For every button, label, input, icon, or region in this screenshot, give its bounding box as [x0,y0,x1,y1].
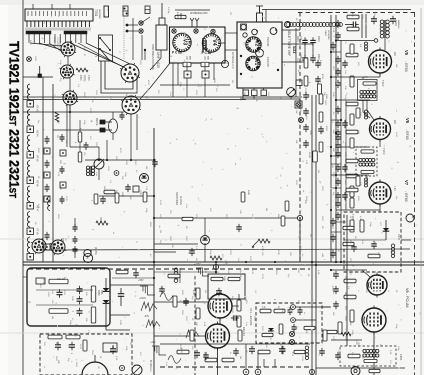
resistor R z br [327,330,351,336]
wire vhf top tie [259,10,261,14]
wire x296 drop [295,28,297,97]
wire bus y262 b [23,264,424,266]
tube V ECC twin b [50,239,66,255]
svg-text:4700: 4700 [281,330,283,336]
capacitor C rect [118,288,125,306]
capacitor C if11 [335,178,341,186]
wire dotted col [123,16,125,60]
resistor R a1 [48,335,62,339]
tube socket V5s big [121,95,141,115]
inductor L vhf [296,80,302,86]
wire dashed bottom [160,366,312,368]
terminal PH [83,253,92,262]
svg-text:56K: 56K [251,346,253,350]
resistor R 287 [285,201,289,211]
wire v8 couple [362,270,370,277]
wire bm h [160,343,310,345]
svg-text:2200: 2200 [95,142,97,148]
resistor L50 b [201,56,209,67]
wire v8 h [331,270,367,340]
capacitor C d2 [351,244,357,252]
wire rect v [106,312,130,330]
svg-text:47K: 47K [261,306,263,310]
svg-text:5600: 5600 [267,92,269,98]
svg-text:1500: 1500 [34,56,36,62]
wire ify tie [331,164,346,222]
resistor R q3 [182,217,193,220]
svg-text:C85: C85 [100,290,103,295]
svg-text:0,5-3p: 0,5-3p [167,7,169,14]
wire if h210 [336,209,380,211]
capacitor C v10 a [231,315,239,321]
resistor R mix [104,190,115,194]
resistor R v8 d [338,322,342,334]
svg-text:T102: T102 [381,80,385,87]
resistor R bus [308,151,317,162]
resistor R v8 c [350,310,354,322]
terminal mix [114,171,119,176]
svg-text:68E: 68E [59,160,61,164]
wire sw blobs [144,49,146,60]
resistor R v8 f [343,242,354,245]
svg-text:470K: 470K [192,290,194,296]
svg-text:800R: 800R [247,190,249,196]
box R group [208,274,245,299]
svg-text:10K: 10K [344,86,346,90]
svg-text:4700: 4700 [204,268,206,274]
svg-text:V4: V4 [211,39,217,45]
waveform w6 [168,356,181,364]
capacitor C d1 [371,241,377,249]
connector T501 pin labels [26,28,90,31]
svg-text:8,2K: 8,2K [359,216,361,221]
svg-text:56K: 56K [85,318,87,322]
wire mix out [154,218,297,235]
svg-text:68E: 68E [304,200,306,204]
resistor R br2 [323,330,327,341]
capacitor C bb3 [183,298,189,306]
resistor R br [348,354,360,358]
wire dashed vert x195 [194,276,196,375]
node ify dots [330,51,342,189]
resistor R vhf out [318,84,322,94]
terminal uhf b [194,29,198,33]
resistor R ifx1 [350,44,354,54]
resistor Rg2 [216,277,240,296]
waveform w5 [150,341,166,355]
resistor R a3 [83,340,87,351]
wire uhf to socket [140,63,170,99]
resistor R if10 [350,186,354,197]
svg-text:100p: 100p [124,172,126,178]
box B9 [103,343,117,352]
terminal V vhf [252,29,259,35]
waveform w8 [194,264,209,276]
wire sockets v a [67,56,69,65]
svg-text:220K: 220K [125,160,127,165]
svg-text:220K: 220K [71,296,73,301]
resistor R a2 [66,335,80,339]
terminal Q vhf [241,24,247,30]
capacitor C v8 b [333,286,339,294]
svg-text:220K: 220K [119,320,121,326]
wire bb ties [112,272,216,278]
label V7-EF80 [404,180,409,202]
svg-text:220K: 220K [277,250,279,255]
svg-text:8,2K: 8,2K [195,246,197,251]
resistor R ctr1 [78,132,82,142]
svg-text:220K: 220K [239,96,241,101]
wire br v8 down [373,332,375,344]
label V11 ECH84 [249,308,253,326]
junction rule x [27,57,32,62]
wire v10 h [154,294,239,306]
terminal chain in [285,22,291,28]
module SELETTORE VHF S33 box [237,22,282,88]
svg-text:V11 - ECH84: V11 - ECH84 [249,308,253,326]
wire v8 v [373,332,375,375]
svg-text:SCHERM.: SCHERM. [327,30,329,40]
capacitor C m6 [303,124,309,132]
label T104 [351,214,355,220]
node bb dots [153,261,317,279]
module SINTONIZZATORE UHF S35 box [170,27,226,63]
wire h bus y99 [23,99,246,101]
capacitor C if1 [335,20,341,28]
tube V7 EF80 [369,180,391,207]
svg-text:P C 88: P C 88 [172,51,182,55]
capacitor C ify4 [335,200,341,208]
capacitor C if7 [335,120,341,128]
resistor R v10 b [196,308,200,319]
resistor L50 a [183,56,191,67]
label box top3 [145,6,150,14]
svg-text:1500: 1500 [79,75,82,81]
svg-text:-64V: -64V [144,315,149,318]
tube V1 PCF80 [246,56,260,70]
svg-text:1580: 1580 [325,94,327,100]
wire x70 down [67,105,70,147]
tube V8 a [367,273,387,298]
svg-text:V6: V6 [405,118,410,124]
capacitor C a1 [55,342,61,350]
transformer TR small [86,166,94,176]
svg-text:68E: 68E [195,322,197,326]
svg-text:2200: 2200 [229,250,231,256]
wire v5 to t102 [363,73,380,79]
junction cross a [289,331,294,336]
diode B250 b [103,300,110,312]
tube V8 b [362,306,386,335]
capacitor C br2 [319,348,325,356]
wire bus y262 a [23,261,424,263]
svg-text:200K: 200K [223,276,225,282]
label box top2 [123,6,128,16]
node model title TV1921 [7,41,23,198]
connector T501 body [25,9,93,21]
wire det h [344,239,386,241]
svg-text:1500: 1500 [134,160,136,166]
wire bus dashed y269 [28,268,310,270]
resistor R q1 [94,194,98,204]
wire plug down [150,50,161,70]
wire sync h2 [295,319,316,321]
resistor R 283 [281,216,285,226]
svg-text:2200: 2200 [349,270,351,276]
capacitor C76 [299,54,308,63]
wire bar2 to V2s c [86,43,130,64]
svg-text:4700: 4700 [180,348,182,354]
resistor R q2 [115,192,123,203]
tube V audio arc [82,355,108,375]
svg-text:V5: V5 [404,50,409,56]
capacitor C ifx1 [330,42,336,50]
svg-text:1M: 1M [159,230,161,233]
connector T501 pins [27,21,89,27]
node if5 [374,39,378,43]
svg-text:CAVO: CAVO [324,30,327,36]
svg-text:1080: 1080 [121,192,123,198]
capacitor C ify5 [335,212,341,220]
svg-text:1M: 1M [204,290,206,293]
wire h130 [53,129,107,131]
wire y250 [47,249,410,250]
svg-text:NTC: NTC [42,279,44,284]
waveform w7 [186,330,199,338]
resistor R if1 [347,13,359,19]
resistor R ww [96,217,108,225]
capacitor C m7 [318,126,327,134]
coil L mix [174,268,180,283]
capacitor chain caps x75 [73,224,78,254]
tube socket V4s big [120,63,140,83]
wire if h100 [336,99,370,101]
terminal M 24V [84,247,97,257]
label ANTENNA UHF top [190,12,208,15]
wire top drop [265,10,267,23]
svg-text:1500: 1500 [47,292,49,298]
label SELETTORE VHF [287,30,291,56]
svg-text:47K: 47K [215,88,217,92]
resistor R if8 [346,159,358,163]
wire pin curtain [29,34,86,43]
node sync a [291,305,296,310]
svg-text:68E: 68E [55,342,57,346]
bus bar left [26,31,51,34]
coil L if peak2 [365,110,368,119]
wire rete leads [112,112,114,140]
label V6-EF80 [405,118,410,140]
resistor R v8 e [343,226,354,229]
capacitor C if8 [335,134,341,142]
resistor R s1 [260,306,271,313]
svg-text:- EF80: - EF80 [405,129,409,140]
label M300 [149,360,153,368]
resistor R zig arrow [252,239,270,249]
inductor chain A [27,84,34,260]
antenna fork a [190,18,194,27]
svg-text:10K: 10K [255,98,257,102]
wire fold line B [0,238,424,240]
resistor R zig mix [210,256,222,260]
socket pin sq c [243,90,249,96]
capacitor C ifx3 [342,120,348,128]
module T104 det box [344,212,401,272]
wire connector ticks top [33,4,70,9]
svg-text:47K: 47K [209,208,211,212]
svg-text:1500: 1500 [344,316,346,322]
capacitor C77 [310,54,320,63]
svg-text:10E 1W: 10E 1W [57,279,66,281]
svg-text:8,2K: 8,2K [203,322,205,327]
label 1857ST [61,238,66,245]
svg-text:1500: 1500 [95,90,97,96]
wire switch loop [101,61,137,93]
resistor R m4 [319,112,323,122]
tube V3 PC88 [172,33,191,54]
resistor R surge [49,279,68,284]
wire v7 down [379,204,381,212]
svg-text:T501: T501 [94,9,98,16]
label EM34 [242,327,246,336]
svg-text:1M: 1M [265,208,267,211]
wire bar2 to V2s a [70,43,124,67]
svg-text:SELETTORE VHF: SELETTORE VHF [287,30,291,56]
capacitor C ifx2 [342,60,348,68]
wire t102 v [363,100,370,118]
terminal R vhf [270,28,278,35]
svg-text:10K: 10K [121,176,123,180]
label antenna uhf r [231,52,234,69]
svg-text:T103: T103 [382,148,386,155]
label V5-EF80 [404,50,409,72]
capacitor C bm2 [249,346,255,354]
svg-text:8,2K: 8,2K [365,322,367,327]
label R osc [79,75,90,81]
svg-text:68E: 68E [395,64,397,68]
svg-text:56K: 56K [103,186,105,190]
wire if vert a [330,15,332,262]
wire cage h [36,290,93,305]
wire sync h1 [295,306,330,308]
socket pin sq b [261,90,267,96]
svg-text:PCC88: PCC88 [266,57,270,67]
wire cage in [23,276,27,278]
trimmer box a [184,71,191,78]
capacitor C ify1 [335,129,341,137]
wire if ties [331,52,341,232]
resistor R v8 a [344,279,356,283]
svg-text:47K: 47K [373,12,375,16]
capacitor C if5 [335,80,341,88]
capacitor C if2 [335,32,341,40]
trimmer box b [202,71,209,78]
capacitor C cage c [77,308,83,316]
resistor R if6 [346,130,358,134]
wire ctr v80 [79,120,81,152]
label T501 [94,9,102,19]
coil L if peak1 [365,42,368,51]
svg-text:8,2K: 8,2K [317,270,319,275]
resistor R ify1 [350,138,354,148]
wire mid h252 [154,251,176,253]
svg-text:100p: 100p [239,268,241,274]
svg-text:56K: 56K [295,110,297,114]
box mix [133,186,139,192]
resistor R bb5 [222,358,234,362]
svg-text:10K: 10K [213,346,215,350]
svg-text:1500: 1500 [325,126,327,132]
label B250 [97,290,103,296]
svg-text:1M: 1M [56,135,58,138]
capacitor C mix d [189,248,195,256]
svg-text:47K: 47K [261,252,263,256]
wire top long [262,9,411,11]
capacitor C bb2 [159,286,165,294]
resistor R if5 [346,102,358,106]
wire h bus y97 [23,96,302,98]
label S33 [292,46,297,54]
tube T trim [256,49,264,57]
junction cross b [289,339,294,344]
svg-text:47K: 47K [191,346,193,350]
resistor R br3 [369,369,380,372]
svg-text:1800: 1800 [317,36,320,42]
capacitor C ctr3 [60,196,65,204]
resistor R v8 b [344,295,356,299]
resistor R v10 a [192,288,200,299]
svg-text:SINTONIA: SINTONIA [175,192,179,205]
wire vert x316 [315,95,317,375]
wire v10 h2 [154,335,205,337]
capacitor C v8 c [333,301,339,309]
svg-text:V4 V5: V4 V5 [36,155,39,162]
wire bar1 to V1s a [30,43,61,46]
svg-text:3,3K: 3,3K [367,88,369,93]
switch S ant lever1 [99,37,111,51]
svg-text:- EF80: - EF80 [404,191,408,202]
resistor R m3 [319,94,327,104]
wire chain tail [345,22,359,28]
svg-text:4750: 4750 [321,74,323,80]
svg-text:+200V: +200V [139,297,146,300]
svg-text:220K: 220K [139,190,141,196]
terminal U circle [221,60,229,67]
svg-text:2200: 2200 [261,326,263,332]
svg-text:MOD RF: MOD RF [53,37,55,46]
capacitor C ifx5 [342,192,348,200]
capacitor C a2 [69,342,75,350]
module power cage [27,268,110,326]
svg-text:10K: 10K [239,210,241,214]
svg-text:56K: 56K [277,214,279,218]
capacitor C cage a [57,289,63,297]
capacitor C if4 [335,68,341,76]
capacitor C a3 [110,346,116,354]
terminal bm a [243,369,249,375]
svg-text:68E: 68E [279,342,281,346]
terminal bb2 [309,369,314,374]
capacitor C q1 [100,196,106,204]
svg-text:8,2K: 8,2K [109,96,111,101]
svg-text:8,2K: 8,2K [389,350,391,355]
capacitor chain B [44,136,50,250]
wire uhf-vhf b [225,49,237,51]
wire uhf pins down2 [173,63,214,97]
resistor R if4 [346,53,358,57]
terminal bb1 [119,365,124,370]
svg-text:8,2K: 8,2K [115,356,117,361]
